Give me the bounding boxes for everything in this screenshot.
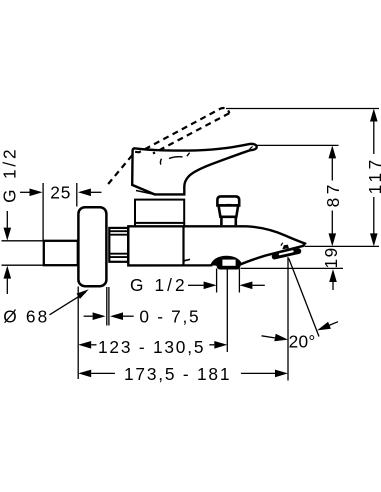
dimension 20 degrees	[262, 257, 339, 381]
tick above slot	[281, 243, 283, 246]
dimension G 1/2 bottom (aerator)	[188, 269, 265, 293]
svg-text:123 - 130,5: 123 - 130,5	[98, 337, 205, 357]
faucet: outlet slot 20°	[271, 248, 301, 260]
faucet: diverter knob	[217, 196, 239, 225]
faucet: escutcheon Ø68 (side view)	[78, 207, 106, 286]
svg-text:Ø 68: Ø 68	[3, 307, 49, 327]
dimension 87 vertical	[329, 145, 337, 246]
dimension 173,5 - 181	[78, 370, 288, 378]
dimension 117 vertical right	[370, 109, 378, 247]
svg-text:117: 117	[365, 156, 381, 194]
reference line top (raised lever height)	[226, 108, 379, 110]
reference line lever top	[257, 144, 339, 146]
faucet: wall pipe nipple G1/2	[44, 241, 78, 265]
faucet: aerator dome	[211, 257, 240, 270]
faucet: S-union nut with threads	[109, 228, 128, 262]
faucet: lever handle (rest position)	[132, 144, 257, 195]
lever tip crease	[250, 146, 253, 149]
reference line aerator bottom	[241, 267, 344, 269]
aerator window	[222, 260, 235, 266]
svg-text:25: 25	[50, 182, 71, 202]
svg-text:19: 19	[321, 246, 341, 268]
dimension 123 - 130,5	[78, 269, 227, 352]
svg-text:20°: 20°	[289, 331, 316, 351]
dimension 19 vertical	[329, 269, 337, 290]
svg-text:173,5 - 181: 173,5 - 181	[124, 364, 231, 384]
wall extension line	[77, 287, 79, 380]
svg-text:0 - 7,5: 0 - 7,5	[139, 306, 200, 326]
lever surface marks	[160, 153, 189, 165]
lever chin inner line	[136, 191, 154, 195]
svg-text:G 1/2: G 1/2	[130, 275, 188, 295]
svg-text:G 1/2: G 1/2	[0, 147, 20, 203]
lever raised position (dashed)	[108, 108, 229, 184]
svg-text:87: 87	[323, 181, 343, 207]
dimension leader Ø 68	[50, 289, 89, 315]
faucet: cartridge pedestal	[135, 200, 184, 227]
dimension 25 top left	[20, 183, 102, 240]
dimension 0 - 7,5	[84, 287, 134, 326]
dimension G 1/2 left vertical	[2, 211, 44, 294]
faucet: body with spout	[128, 226, 305, 265]
slot mounting tab	[282, 245, 289, 250]
reference line spout tip	[305, 245, 380, 247]
body divider line	[182, 226, 184, 265]
body small tick	[184, 259, 190, 260]
